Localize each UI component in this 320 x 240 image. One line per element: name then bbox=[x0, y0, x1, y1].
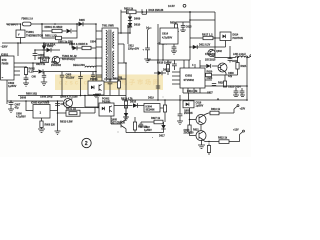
capacitor C628 bbox=[212, 84, 216, 86]
resistor R617 bbox=[198, 32, 220, 39]
svg-text:1μ/50V: 1μ/50V bbox=[144, 129, 152, 132]
resistor R608 bbox=[40, 121, 56, 129]
svg-text:R608 220: R608 220 bbox=[45, 124, 56, 127]
ground (R613) bbox=[123, 117, 129, 121]
svg-text:R601 1.2Ω: R601 1.2Ω bbox=[45, 35, 57, 38]
wire x180 vertical bbox=[179, 95, 181, 114]
capacitor C615 bbox=[143, 48, 150, 59]
svg-text:47μ: 47μ bbox=[228, 75, 233, 78]
zener D613 box bbox=[183, 93, 194, 108]
svg-text:D616: D616 bbox=[130, 101, 137, 104]
resistor R629 bbox=[218, 75, 227, 87]
diode D617 bbox=[159, 125, 166, 138]
svg-text:THERMISTOR: THERMISTOR bbox=[26, 34, 43, 38]
label C609 bbox=[20, 96, 53, 100]
diode D605 on main line bbox=[79, 19, 86, 26]
svg-text:+15V: +15V bbox=[240, 108, 246, 111]
svg-text:R603 10Ω: R603 10Ω bbox=[26, 92, 37, 95]
svg-text:47μ: 47μ bbox=[15, 107, 20, 110]
svg-text:KTA1266: KTA1266 bbox=[205, 53, 216, 56]
transformer T601 bbox=[102, 28, 118, 82]
svg-text:1μ/50V: 1μ/50V bbox=[196, 105, 204, 108]
diode D614 bbox=[37, 43, 60, 53]
svg-text:2SC2482: 2SC2482 bbox=[51, 64, 62, 67]
wire rail x126 bbox=[125, 63, 127, 101]
transistor Q605 bbox=[111, 119, 126, 129]
transistor Q607 bbox=[218, 63, 227, 72]
label C630 bbox=[228, 72, 234, 78]
wire T601 right pins bbox=[118, 33, 130, 77]
capacitor C624 bbox=[240, 88, 245, 95]
resistor R602 bbox=[24, 67, 35, 79]
diode D620 bbox=[200, 64, 218, 68]
speck bbox=[152, 137, 153, 138]
svg-text:C609 100μ: C609 100μ bbox=[40, 96, 53, 99]
junction dots main bbox=[20, 23, 22, 25]
wire x59 vertical bbox=[57, 101, 59, 131]
watermark band bbox=[55, 75, 163, 91]
svg-text:R617 1.2: R617 1.2 bbox=[202, 32, 213, 36]
ground (R602) bbox=[23, 83, 29, 86]
svg-text:••: •• bbox=[2, 77, 4, 80]
capacitor C617 bbox=[142, 9, 164, 14]
svg-text:D617: D617 bbox=[159, 135, 165, 138]
capacitor C621 bbox=[178, 114, 183, 121]
wire IC604 right bbox=[160, 100, 165, 108]
diode D611 bbox=[189, 44, 210, 50]
transistor Q604 bbox=[196, 131, 206, 141]
capacitor C610 bbox=[55, 103, 67, 106]
svg-text:R624: R624 bbox=[241, 65, 247, 68]
capacitor C602 label bbox=[8, 81, 17, 88]
resistor R611 bbox=[113, 78, 123, 96]
resistor R630 aux bbox=[170, 22, 190, 32]
thermistor TH601 bbox=[16, 24, 43, 43]
capacitor C606 bbox=[33, 50, 51, 60]
photocoupler PC602 bbox=[99, 98, 114, 117]
svg-text:C60: C60 bbox=[32, 76, 37, 79]
capacitor C604b bbox=[91, 72, 95, 82]
ground (C615) bbox=[144, 59, 150, 63]
diode D618 (Q605 collector) bbox=[124, 106, 128, 120]
wire snubber row bbox=[72, 43, 96, 48]
resistor R613 bbox=[121, 98, 133, 117]
transistor Q601 bbox=[51, 56, 62, 67]
capacitor C611 bbox=[108, 82, 113, 96]
wire Q605 base bbox=[111, 116, 121, 124]
ground (C610) bbox=[55, 131, 61, 135]
terminal +12V bbox=[233, 129, 244, 135]
diode D610 bbox=[128, 21, 141, 34]
svg-text:FB601 2 A: FB601 2 A bbox=[22, 18, 34, 21]
svg-text:R632 0.5W: R632 0.5W bbox=[60, 121, 73, 124]
capacitor C602a bbox=[32, 72, 47, 83]
svg-text:D605: D605 bbox=[79, 19, 85, 22]
svg-text:C604: C604 bbox=[90, 41, 96, 44]
node dot main line bbox=[41, 23, 43, 25]
wire Q603 emitter to Q604 bbox=[200, 125, 202, 131]
photocoupler PC601 bbox=[88, 78, 104, 95]
label 10.5V bbox=[168, 4, 186, 8]
resistor R621 bbox=[188, 125, 199, 132]
wire bias chain bbox=[190, 108, 196, 136]
resistor R619 bbox=[210, 108, 221, 115]
svg-text:C614: C614 bbox=[162, 33, 169, 36]
svg-text:R616 15k: R616 15k bbox=[187, 90, 198, 93]
fuse FB601 bbox=[22, 18, 34, 26]
ground (C607) bbox=[8, 109, 14, 113]
ground (R608) bbox=[38, 129, 45, 133]
bridge diode DB601 bbox=[42, 43, 54, 57]
wire rail x158 bbox=[157, 24, 159, 100]
svg-text:t°: t° bbox=[18, 33, 20, 37]
varistor Z601 bbox=[41, 57, 49, 63]
capacitor C604b bbox=[78, 72, 82, 96]
label Q604 bbox=[184, 129, 195, 135]
degauss loop rectangle bbox=[42, 24, 77, 38]
wire h93 bbox=[183, 92, 210, 94]
ground (PC601) bbox=[93, 95, 99, 98]
terminal out 10.5 bbox=[249, 55, 252, 58]
svg-text:TH601: TH601 bbox=[26, 30, 34, 34]
ground (C623) bbox=[233, 95, 245, 97]
wire Q604 emitter/ground bbox=[200, 140, 202, 145]
wire h113 bbox=[58, 108, 96, 114]
ground (C621) bbox=[177, 121, 183, 125]
svg-text:STV9302: STV9302 bbox=[184, 79, 195, 82]
wire Q605 emitter to rail bbox=[126, 129, 164, 133]
capacitor C603 bbox=[24, 78, 29, 83]
resistor R618 bbox=[157, 60, 172, 75]
svg-text:R627 1k: R627 1k bbox=[151, 117, 161, 120]
svg-text:D611 8.2V: D611 8.2V bbox=[199, 44, 211, 47]
wire Q606 out bbox=[63, 99, 98, 108]
wire sec row y79 bbox=[104, 79, 126, 82]
wire aux row bbox=[190, 36, 226, 58]
wire row y75 bbox=[208, 72, 238, 75]
svg-text:[4]: [4] bbox=[127, 25, 130, 28]
wire PC602 left bbox=[85, 96, 99, 108]
wire bottom bus bbox=[18, 95, 126, 97]
svg-text:L601 2.2μH: L601 2.2μH bbox=[233, 53, 246, 56]
svg-text:471/2kV: 471/2kV bbox=[66, 77, 75, 80]
svg-text:IC602: IC602 bbox=[185, 74, 192, 78]
page mark 2 bbox=[82, 138, 91, 147]
svg-text:D619: D619 bbox=[148, 97, 154, 100]
svg-text:R7.8: R7.8 bbox=[82, 42, 88, 46]
svg-text:D610: D610 bbox=[134, 23, 141, 27]
label C608 bbox=[16, 113, 26, 119]
diode D602 bbox=[67, 29, 72, 33]
svg-text:1μ/50V: 1μ/50V bbox=[8, 84, 17, 88]
wire T601 left pins bbox=[96, 31, 102, 77]
resistor R628 bbox=[133, 117, 147, 133]
capacitor C605 bbox=[60, 72, 75, 96]
svg-text:SE140N: SE140N bbox=[146, 109, 155, 112]
wire PC602 to diode row bbox=[114, 105, 144, 107]
svg-text:PC601: PC601 bbox=[90, 78, 98, 81]
photocoupler PC602 feedback bbox=[220, 32, 243, 41]
svg-text:T601 SWR: T601 SWR bbox=[102, 25, 114, 28]
ground (Q606 top) bbox=[95, 94, 101, 99]
terminal +15V bbox=[234, 105, 246, 111]
svg-text:R629: R629 bbox=[218, 82, 224, 85]
svg-text:2: 2 bbox=[85, 141, 88, 147]
resistor R615 bbox=[124, 7, 136, 13]
svg-text:DB601 3A 6B1R: DB601 3A 6B1R bbox=[45, 26, 63, 29]
svg-text:D608: D608 bbox=[20, 97, 27, 100]
wire IC602 bottom pins bbox=[183, 88, 200, 93]
capacitor C622 bbox=[139, 122, 152, 132]
wire primary bus vertical bbox=[95, 24, 97, 81]
ground (C620) bbox=[171, 51, 177, 54]
resistor R601 bbox=[45, 29, 62, 37]
capacitor C619 bbox=[172, 60, 177, 70]
svg-text:4.7μ/50V: 4.7μ/50V bbox=[162, 37, 172, 40]
ground (C602a) bbox=[41, 82, 47, 86]
transistor Q606 bbox=[60, 95, 78, 107]
label C615b bbox=[160, 35, 168, 41]
capacitor C618 bbox=[228, 46, 239, 63]
wire AC line top bbox=[6, 23, 96, 25]
svg-text:Q606 KTC3198: Q606 KTC3198 bbox=[60, 95, 78, 98]
svg-text:D609: D609 bbox=[134, 17, 141, 21]
resistor R622 bbox=[218, 137, 229, 144]
wire 10.5 output row bbox=[214, 56, 250, 57]
fusible resistor R631 bbox=[66, 108, 80, 117]
wire R627 row bbox=[141, 122, 164, 125]
ground (R630) bbox=[173, 32, 179, 35]
svg-text:0.15: 0.15 bbox=[29, 70, 35, 74]
snubber resistor R607 bbox=[82, 42, 91, 50]
svg-text:~220V: ~220V bbox=[1, 46, 8, 49]
diode D603 bbox=[36, 63, 46, 74]
resistor block R623 bbox=[160, 28, 178, 44]
ic IC601 STR-F6656 bbox=[1, 52, 44, 80]
svg-text:2SC2120: 2SC2120 bbox=[184, 132, 195, 135]
wire right verticals bbox=[190, 12, 215, 60]
node dot gate bbox=[25, 66, 27, 68]
svg-text:D614 ERA: D614 ERA bbox=[43, 43, 56, 47]
wire top rail bbox=[121, 10, 215, 33]
transistor Q603 bbox=[196, 115, 206, 125]
capacitor C620 bbox=[172, 44, 177, 51]
svg-text:R619 1k: R619 1k bbox=[211, 108, 221, 111]
svg-text:220μ+10V: 220μ+10V bbox=[128, 48, 140, 51]
svg-text:Q602: Q602 bbox=[216, 50, 223, 53]
resistor R627 bbox=[151, 117, 163, 124]
wire Q604 collector row bbox=[203, 135, 240, 142]
node out1 bbox=[127, 25, 132, 28]
wire Q603 collector to +15 row bbox=[204, 109, 234, 115]
svg-text:4.7μ/50V: 4.7μ/50V bbox=[16, 116, 26, 119]
svg-text:IC603 KIA78R09: IC603 KIA78R09 bbox=[31, 101, 50, 104]
label Q603 bbox=[184, 109, 193, 115]
label C616 bbox=[196, 102, 204, 108]
svg-text:D604 0.1W: D604 0.1W bbox=[69, 42, 83, 46]
wire gate row bbox=[60, 57, 96, 59]
svg-text:R618 1k/2W: R618 1k/2W bbox=[157, 61, 172, 65]
capacitor C607 bbox=[9, 101, 21, 110]
svg-text:2SC945: 2SC945 bbox=[184, 112, 193, 115]
wire bridge to cap bbox=[35, 50, 44, 57]
wire primary return y71.5 bbox=[33, 63, 96, 72]
svg-text:(+): (+) bbox=[146, 27, 149, 30]
svg-text:C625: C625 bbox=[186, 26, 192, 29]
ground (C625) bbox=[180, 30, 186, 32]
resistor R626 bbox=[206, 73, 212, 76]
resistor R625 bbox=[163, 105, 166, 122]
speck bbox=[163, 97, 164, 98]
ic IC604 bbox=[144, 104, 160, 113]
svg-text:F6656: F6656 bbox=[2, 63, 9, 66]
label above IC602 bbox=[148, 44, 191, 60]
diode D616 bbox=[130, 101, 138, 108]
degauss coil L602 bbox=[73, 64, 96, 68]
speck bbox=[118, 132, 119, 133]
svg-text:R611 1k: R611 1k bbox=[113, 78, 123, 81]
svg-text:C623 C624: C623 C624 bbox=[228, 86, 241, 89]
svg-text:10.5V: 10.5V bbox=[168, 4, 175, 8]
svg-text:2SC1815: 2SC1815 bbox=[205, 59, 216, 62]
wire left bus bbox=[7, 80, 63, 104]
ground (Q604) bbox=[198, 145, 205, 149]
wire h86 bbox=[212, 85, 247, 87]
svg-text:D612: D612 bbox=[163, 69, 170, 72]
ic IC603 bbox=[26, 101, 58, 121]
resistor R624 bbox=[236, 58, 247, 76]
wire AC line bottom bbox=[2, 43, 72, 56]
svg-text:R622 1k: R622 1k bbox=[218, 137, 228, 140]
svg-text:+12V: +12V bbox=[233, 129, 239, 132]
node out2 bbox=[146, 27, 152, 31]
svg-text:PHOTON: PHOTON bbox=[233, 37, 243, 40]
ic IC602 bbox=[172, 60, 212, 88]
svg-text:DEGAUSS: DEGAUSS bbox=[73, 64, 85, 67]
capacitor C623 bbox=[228, 86, 241, 96]
wire right vertical bbox=[246, 58, 248, 101]
diode D612 bbox=[154, 69, 170, 76]
resistor R623 bbox=[207, 143, 210, 155]
svg-text:C626: C626 bbox=[207, 77, 213, 80]
capacitor C601 row bbox=[56, 36, 74, 43]
capacitor C612 bbox=[128, 45, 140, 51]
svg-text:NTC15-Ω(+): NTC15-Ω(+) bbox=[62, 58, 75, 61]
svg-text:D616 1N4148: D616 1N4148 bbox=[149, 9, 164, 12]
inductor L601 bbox=[233, 53, 248, 58]
wire rail x147 bbox=[147, 30, 149, 48]
wire rail x128 bbox=[127, 28, 129, 44]
transistor Q602 bbox=[205, 49, 223, 61]
capacitor C625 aux bbox=[181, 22, 192, 30]
diode D609 bbox=[128, 14, 141, 21]
wire h100 bbox=[122, 99, 247, 101]
snubber diode D604 bbox=[69, 42, 83, 50]
